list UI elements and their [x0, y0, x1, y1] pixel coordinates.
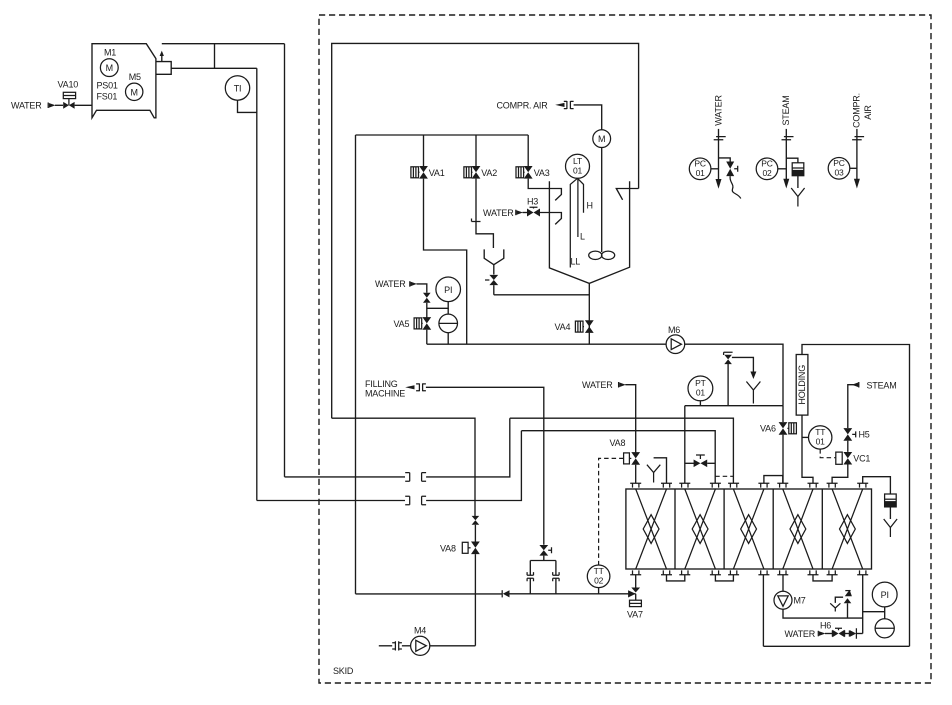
- svg-text:WATER: WATER: [11, 100, 42, 110]
- water arrow: [817, 631, 819, 637]
- M4 connector: [379, 645, 392, 647]
- sight glass (water): [875, 619, 894, 638]
- level transmitter LT01: [566, 154, 590, 178]
- TT01 signal to VC1: [820, 449, 835, 458]
- check valve: [845, 633, 850, 635]
- svg-text:H3: H3: [527, 197, 538, 207]
- svg-text:M7: M7: [794, 596, 806, 606]
- coupling station left: [529, 578, 531, 594]
- hx top ports: [630, 483, 868, 487]
- svg-text:PI: PI: [444, 285, 452, 295]
- wire tank top to right (overflow): [162, 43, 285, 45]
- svg-text:01: 01: [696, 168, 706, 178]
- funnel outlet valve: [493, 265, 495, 275]
- svg-text:WATER: WATER: [785, 629, 816, 639]
- drain funnel Y: [746, 382, 760, 404]
- coupling bridge: [530, 560, 556, 562]
- agitator motor M: [593, 130, 611, 148]
- valve VA3: [527, 135, 529, 166]
- motor M1 circle: [100, 59, 118, 77]
- flow arrow left: [501, 590, 503, 597]
- gauge PI: [436, 277, 461, 302]
- svg-text:STEAM: STEAM: [781, 95, 791, 125]
- pipe y500.5 to coupling: [257, 500, 405, 502]
- pipe y476.9 to coupling: [285, 476, 406, 478]
- svg-text:02: 02: [594, 576, 604, 586]
- arrow up at nozzle: [161, 54, 163, 62]
- water inlet arrow: [47, 103, 49, 109]
- filling line valve: [539, 545, 548, 556]
- balance tank outlet nozzle box: [156, 62, 171, 75]
- wire to agitator motor: [574, 105, 602, 130]
- steam line down: [848, 385, 859, 428]
- svg-text:M5: M5: [129, 72, 141, 82]
- hx section5 plates: [832, 489, 863, 569]
- agitator shaft: [601, 148, 603, 253]
- svg-text:VA5: VA5: [394, 319, 410, 329]
- valve VA1: [423, 135, 425, 166]
- heat exchanger body: [626, 489, 872, 569]
- svg-text:M1: M1: [104, 48, 116, 58]
- svg-text:STEAM: STEAM: [867, 380, 897, 390]
- svg-text:H: H: [587, 201, 593, 211]
- svg-text:01: 01: [696, 388, 706, 398]
- svg-text:M: M: [598, 134, 605, 144]
- hand valve between headers: [685, 462, 694, 464]
- hx bottom bridge 813-832: [813, 575, 832, 581]
- gauge PI (water): [872, 582, 897, 607]
- holding tube: [802, 345, 910, 647]
- PC01 hose branch valve: [719, 158, 731, 162]
- wire water to VA10: [55, 104, 63, 106]
- hx section4 plates: [783, 489, 813, 569]
- motor M5 circle: [126, 83, 143, 100]
- steam trap drain funnel: [791, 188, 804, 207]
- small valve (water branch): [423, 293, 431, 303]
- sight glass: [447, 308, 449, 314]
- regen line lower (y431): [521, 431, 715, 484]
- water arrow: [409, 281, 411, 287]
- hx section3 plates: [733, 489, 764, 569]
- svg-text:VA4: VA4: [555, 322, 571, 332]
- product line bottom: [356, 593, 503, 595]
- transmitter PT01: [688, 376, 713, 401]
- svg-text:TI: TI: [234, 84, 242, 94]
- svg-text:01: 01: [573, 166, 583, 176]
- pipe y476.9 right segment: [426, 418, 510, 477]
- main product line to M6: [427, 343, 666, 345]
- svg-text:M6: M6: [668, 325, 680, 335]
- svg-text:VA3: VA3: [534, 168, 550, 178]
- pipe funnel to tank outlet: [494, 294, 590, 296]
- pump M7: [782, 575, 784, 592]
- valve VA2: [475, 135, 477, 166]
- svg-text:LT: LT: [573, 156, 582, 166]
- wire water to valve: [417, 284, 427, 293]
- pipe down x257: [256, 68, 258, 500]
- svg-text:COMPR.: COMPR.: [852, 93, 862, 128]
- svg-text:03: 03: [834, 168, 844, 178]
- steam trap right: [863, 477, 891, 494]
- filling machine connector: [405, 385, 414, 389]
- water arrow: [515, 210, 517, 216]
- svg-text:VA6: VA6: [760, 424, 776, 434]
- recirculation pipe top (inner box): [332, 43, 639, 418]
- water arrow: [618, 382, 620, 388]
- VA8 signal dashed: [599, 458, 624, 565]
- feed nozzle into process tank (right): [616, 189, 638, 200]
- svg-text:AIR: AIR: [863, 105, 873, 120]
- TI tap wire: [238, 100, 257, 112]
- svg-text:PS01: PS01: [97, 81, 118, 91]
- svg-text:VA8: VA8: [610, 438, 626, 448]
- vent pipe to funnel: [732, 357, 754, 371]
- drain funnel Y: [647, 465, 660, 483]
- regen line upper (y418): [332, 418, 475, 518]
- small valve above VA8: [472, 516, 480, 525]
- svg-text:WATER: WATER: [375, 279, 406, 289]
- svg-text:FS01: FS01: [97, 92, 118, 102]
- svg-text:02: 02: [762, 168, 772, 178]
- svg-text:VA2: VA2: [481, 168, 497, 178]
- M4 discharge line: [430, 645, 476, 647]
- svg-text:LL: LL: [571, 257, 581, 267]
- valve VA7: [635, 575, 637, 588]
- vent funnel Y: [835, 597, 843, 603]
- PT01 header line: [685, 405, 783, 407]
- pipe break pair lower: [405, 496, 426, 505]
- svg-text:VA10: VA10: [58, 80, 79, 90]
- coupling station right: [555, 578, 557, 594]
- compr air connector: [555, 103, 564, 107]
- vent valve near M7: [847, 603, 849, 618]
- svg-text:VC1: VC1: [853, 453, 870, 463]
- svg-text:PI: PI: [881, 590, 889, 600]
- transmitter TT01: [809, 426, 832, 449]
- VA3 pipe to tank nozzle: [528, 179, 561, 201]
- svg-text:VA1: VA1: [429, 168, 445, 178]
- wire VA10 to tank: [75, 104, 92, 106]
- svg-text:COMPR. AIR: COMPR. AIR: [497, 101, 549, 111]
- hx section2 plates: [685, 489, 716, 569]
- svg-text:WATER: WATER: [483, 208, 514, 218]
- transmitter TT02: [587, 565, 610, 588]
- svg-text:HOLDING: HOLDING: [797, 365, 807, 405]
- LT01 probe rods: [570, 178, 583, 267]
- tank outlet pipe: [588, 283, 590, 344]
- svg-text:M4: M4: [414, 626, 426, 636]
- wire tee down at x215: [214, 44, 216, 69]
- hx top bridge ports 764-783: [764, 476, 783, 484]
- svg-text:VA8: VA8: [440, 543, 456, 553]
- hx bottom bridge 666-685: [667, 575, 685, 581]
- water riser to HX: [862, 575, 864, 634]
- svg-text:MACHINE: MACHINE: [365, 388, 405, 398]
- instrument TI circle: [225, 76, 249, 100]
- process tank walls: [549, 181, 629, 283]
- manifold pipe y135: [356, 134, 529, 136]
- svg-text:L: L: [580, 232, 585, 242]
- svg-text:FILLING: FILLING: [365, 379, 398, 389]
- hx section1 plates: [636, 489, 667, 569]
- drain from HX port2 to funnel: [654, 458, 667, 484]
- water line down to VA8: [625, 385, 635, 453]
- PI tap wire: [427, 302, 448, 309]
- svg-text:01: 01: [816, 437, 826, 447]
- pipe break pair upper: [405, 473, 426, 482]
- hx bottom ports: [630, 570, 868, 574]
- balance tank T1 body: [92, 44, 156, 118]
- vent valve above PT line: [727, 362, 729, 406]
- pipe y500.5 right segment: [426, 431, 521, 501]
- PC02 steam trap branch: [786, 158, 798, 163]
- svg-text:M: M: [131, 87, 138, 97]
- svg-text:H5: H5: [859, 430, 870, 440]
- drain funnel: [484, 249, 504, 264]
- svg-text:H6: H6: [820, 621, 831, 631]
- hx bottom bridge 715-733: [715, 575, 733, 581]
- pipe down x284.5: [284, 44, 286, 477]
- svg-text:WATER: WATER: [582, 380, 613, 390]
- hose squiggle: [730, 176, 741, 198]
- pipe x355.5 down: [355, 135, 357, 594]
- svg-text:SKID: SKID: [333, 666, 354, 676]
- steam arrow: [858, 382, 860, 388]
- propeller: [589, 251, 602, 259]
- H3 pipe to tank nozzle: [540, 213, 561, 225]
- svg-text:VA7: VA7: [627, 609, 643, 619]
- svg-text:WATER: WATER: [714, 95, 724, 126]
- main line M6 to right: [685, 344, 783, 406]
- filling line: [426, 387, 544, 545]
- VA2 drain pipe with break tick: [476, 179, 493, 248]
- svg-text:M: M: [106, 63, 113, 73]
- PI tap: [863, 611, 885, 613]
- wire nozzle to x257: [171, 67, 257, 69]
- dashed jumper at HX top: [715, 475, 733, 477]
- product return right loop bottom: [763, 645, 909, 647]
- skid dashed border: [319, 15, 931, 683]
- trap drain funnel: [884, 519, 897, 537]
